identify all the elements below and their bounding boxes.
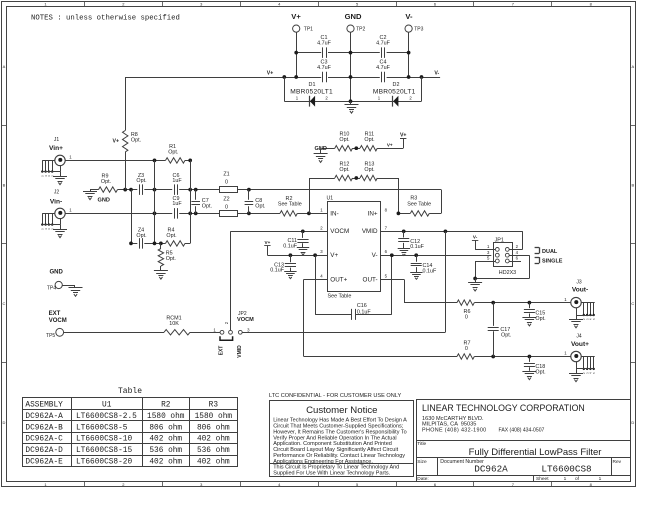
svg-text:402 ohm: 402 ohm: [149, 436, 182, 444]
svg-text:Table: Table: [118, 387, 142, 396]
svg-text:R3: R3: [209, 402, 219, 410]
svg-text:536 ohm: 536 ohm: [149, 447, 182, 455]
svg-text:DC962A-E: DC962A-E: [25, 459, 63, 467]
svg-text:DUAL: DUAL: [542, 249, 558, 255]
svg-text:1uF: 1uF: [172, 201, 182, 207]
svg-text:Opt.: Opt.: [255, 203, 265, 209]
svg-text:A: A: [631, 64, 634, 69]
svg-text:Opt.: Opt.: [501, 332, 511, 338]
svg-text:EXT: EXT: [219, 346, 225, 356]
svg-text:4.7uF: 4.7uF: [317, 41, 331, 47]
svg-text:C16: C16: [357, 303, 367, 309]
svg-text:Opt.: Opt.: [131, 137, 141, 143]
svg-text:806 ohm: 806 ohm: [149, 424, 182, 432]
svg-text:IN-: IN-: [330, 210, 338, 217]
svg-text:B: B: [631, 183, 634, 188]
svg-text:OUT+: OUT+: [330, 276, 347, 283]
svg-text:Opt.: Opt.: [136, 178, 146, 184]
svg-text:LT6600CS8-20: LT6600CS8-20: [76, 459, 132, 467]
svg-text:Opt.: Opt.: [535, 316, 545, 322]
svg-text:U1: U1: [102, 402, 112, 410]
svg-text:GND: GND: [315, 146, 327, 152]
svg-text:HD2X3: HD2X3: [499, 270, 516, 276]
svg-text:J2: J2: [54, 190, 60, 196]
svg-text:536 ohm: 536 ohm: [197, 447, 230, 455]
svg-text:B: B: [3, 183, 6, 188]
svg-text:Size: Size: [417, 459, 427, 465]
svg-text:VOCM: VOCM: [49, 318, 67, 324]
svg-text:C: C: [3, 301, 6, 306]
svg-text:LT6600CS8-10: LT6600CS8-10: [76, 436, 132, 444]
svg-text:Vin+: Vin+: [49, 145, 63, 152]
svg-text:V+: V+: [265, 240, 271, 245]
svg-text:J4: J4: [576, 333, 582, 339]
svg-text:EXT: EXT: [49, 311, 61, 317]
svg-text:Supplied For Use With Linear T: Supplied For Use With Linear Technology …: [273, 471, 390, 477]
svg-text:0.1uF: 0.1uF: [410, 244, 424, 250]
svg-text:TP4: TP4: [47, 285, 56, 291]
svg-text:OUT-: OUT-: [363, 276, 378, 283]
svg-text:V+: V+: [113, 138, 120, 144]
svg-text:Opt.: Opt.: [535, 370, 545, 376]
svg-text:0: 0: [225, 204, 228, 210]
svg-text:0: 0: [465, 314, 468, 320]
svg-text:LT6600CS8-2.5: LT6600CS8-2.5: [76, 413, 137, 421]
svg-text:0.1uF: 0.1uF: [283, 243, 297, 249]
svg-text:LTC CONFIDENTIAL - FOR CUSTOME: LTC CONFIDENTIAL - FOR CUSTOMER USE ONLY: [269, 393, 401, 399]
svg-text:LT6600CS8-15: LT6600CS8-15: [76, 447, 132, 455]
svg-text:D2: D2: [393, 82, 400, 88]
svg-text:JP1: JP1: [495, 238, 504, 244]
svg-text:DC962A-C: DC962A-C: [25, 436, 63, 444]
svg-text:DC962A-A: DC962A-A: [25, 413, 63, 421]
svg-text:C: C: [631, 301, 634, 306]
svg-text:TP1: TP1: [304, 27, 313, 33]
svg-text:0: 0: [225, 179, 228, 185]
svg-text:of: of: [575, 476, 580, 482]
svg-text:TP5: TP5: [46, 333, 55, 339]
svg-text:FAX (408) 434-0507: FAX (408) 434-0507: [499, 428, 545, 434]
svg-text:LINEAR TECHNOLOGY CORPORATION: LINEAR TECHNOLOGY CORPORATION: [422, 403, 585, 413]
svg-text:GND: GND: [50, 269, 64, 275]
svg-text:10K: 10K: [169, 321, 179, 327]
svg-text:VMID: VMID: [362, 228, 378, 235]
svg-text:A: A: [3, 64, 6, 69]
svg-text:GND: GND: [98, 197, 110, 203]
svg-text:U1: U1: [327, 196, 334, 202]
svg-text:Date:: Date:: [417, 476, 428, 482]
svg-text:See Table: See Table: [278, 202, 302, 208]
svg-text:402 ohm: 402 ohm: [149, 459, 182, 467]
svg-text:Opt.: Opt.: [202, 203, 212, 209]
svg-text:V+: V+: [267, 71, 274, 77]
svg-text:See Table: See Table: [407, 201, 431, 207]
svg-text:V-: V-: [405, 12, 413, 21]
svg-text:GND: GND: [345, 12, 362, 21]
svg-text:402 ohm: 402 ohm: [197, 459, 230, 467]
svg-text:TP3: TP3: [414, 27, 423, 33]
svg-text:MBR0520LT1: MBR0520LT1: [373, 89, 416, 96]
svg-text:1: 1: [599, 476, 602, 482]
svg-text:0.1uF: 0.1uF: [423, 268, 437, 274]
svg-text:4.7uF: 4.7uF: [376, 65, 390, 71]
svg-text:J1: J1: [54, 137, 60, 143]
svg-text:V-: V-: [434, 71, 439, 77]
svg-text:IN+: IN+: [368, 210, 378, 217]
svg-text:1580 ohm: 1580 ohm: [147, 413, 185, 421]
svg-text:D: D: [3, 420, 6, 425]
svg-text:Rev: Rev: [613, 459, 622, 465]
svg-text:MBR0520LT1: MBR0520LT1: [290, 89, 333, 96]
svg-text:1: 1: [564, 476, 567, 482]
svg-text:DC962A-B: DC962A-B: [25, 424, 63, 432]
svg-text:Z2: Z2: [223, 197, 229, 203]
svg-text:806 ohm: 806 ohm: [197, 424, 230, 432]
svg-text:V+: V+: [291, 12, 301, 21]
svg-text:Vout+: Vout+: [571, 341, 589, 348]
svg-text:VOCM: VOCM: [237, 317, 254, 323]
svg-text:Opt.: Opt.: [168, 150, 178, 156]
svg-text:Opt.: Opt.: [339, 137, 349, 143]
svg-text:Vin-: Vin-: [50, 199, 62, 206]
svg-text:Opt.: Opt.: [136, 233, 146, 239]
svg-text:See Table: See Table: [328, 293, 352, 299]
svg-text:R2: R2: [161, 402, 171, 410]
svg-text:TP2: TP2: [356, 27, 365, 33]
svg-text:V+: V+: [400, 133, 407, 139]
svg-text:4.7uF: 4.7uF: [376, 41, 390, 47]
svg-text:0.1uF: 0.1uF: [357, 309, 371, 315]
svg-text:Vout-: Vout-: [572, 287, 588, 294]
svg-text:Opt.: Opt.: [364, 167, 374, 173]
svg-text:Z1: Z1: [223, 172, 229, 178]
svg-text:D: D: [631, 420, 634, 425]
svg-text:V+: V+: [387, 143, 393, 148]
svg-text:Opt.: Opt.: [339, 167, 349, 173]
svg-text:0.1uF: 0.1uF: [270, 268, 284, 274]
svg-text:1580 ohm: 1580 ohm: [195, 413, 233, 421]
svg-text:ASSEMBLY: ASSEMBLY: [25, 402, 63, 410]
svg-text:Opt.: Opt.: [166, 233, 176, 239]
svg-text:PHONE (408) 432-1900: PHONE (408) 432-1900: [422, 428, 487, 434]
svg-text:Fully Differential LowPass Fil: Fully Differential LowPass Filter: [469, 447, 602, 458]
svg-text:SINGLE: SINGLE: [542, 259, 563, 265]
svg-text:DC962A-D: DC962A-D: [25, 447, 63, 455]
svg-text:Customer Notice: Customer Notice: [306, 405, 377, 416]
svg-text:LT6600CS8-5: LT6600CS8-5: [76, 424, 128, 432]
svg-text:V-: V-: [473, 234, 478, 239]
svg-text:V+: V+: [330, 252, 338, 259]
svg-text:LT6600CS8: LT6600CS8: [541, 464, 591, 475]
svg-text:Opt.: Opt.: [166, 256, 176, 262]
svg-text:4.7uF: 4.7uF: [317, 65, 331, 71]
svg-text:D1: D1: [309, 82, 316, 88]
svg-text:J3: J3: [576, 279, 582, 285]
svg-text:VOCM: VOCM: [330, 228, 349, 235]
svg-text:Opt.: Opt.: [364, 137, 374, 143]
svg-text:0: 0: [465, 346, 468, 352]
svg-text:JP2: JP2: [238, 311, 247, 317]
svg-text:1uF: 1uF: [172, 178, 182, 184]
svg-text:DC962A: DC962A: [474, 464, 508, 475]
svg-text:Opt.: Opt.: [101, 179, 111, 185]
svg-text:Sheet: Sheet: [536, 476, 549, 482]
svg-text:Title: Title: [417, 441, 426, 447]
svg-text:V-: V-: [372, 252, 378, 259]
svg-text:VMID: VMID: [237, 345, 243, 358]
svg-text:402 ohm: 402 ohm: [197, 436, 230, 444]
svg-text:NOTES : unless otherwise speci: NOTES : unless otherwise specified: [31, 14, 180, 22]
